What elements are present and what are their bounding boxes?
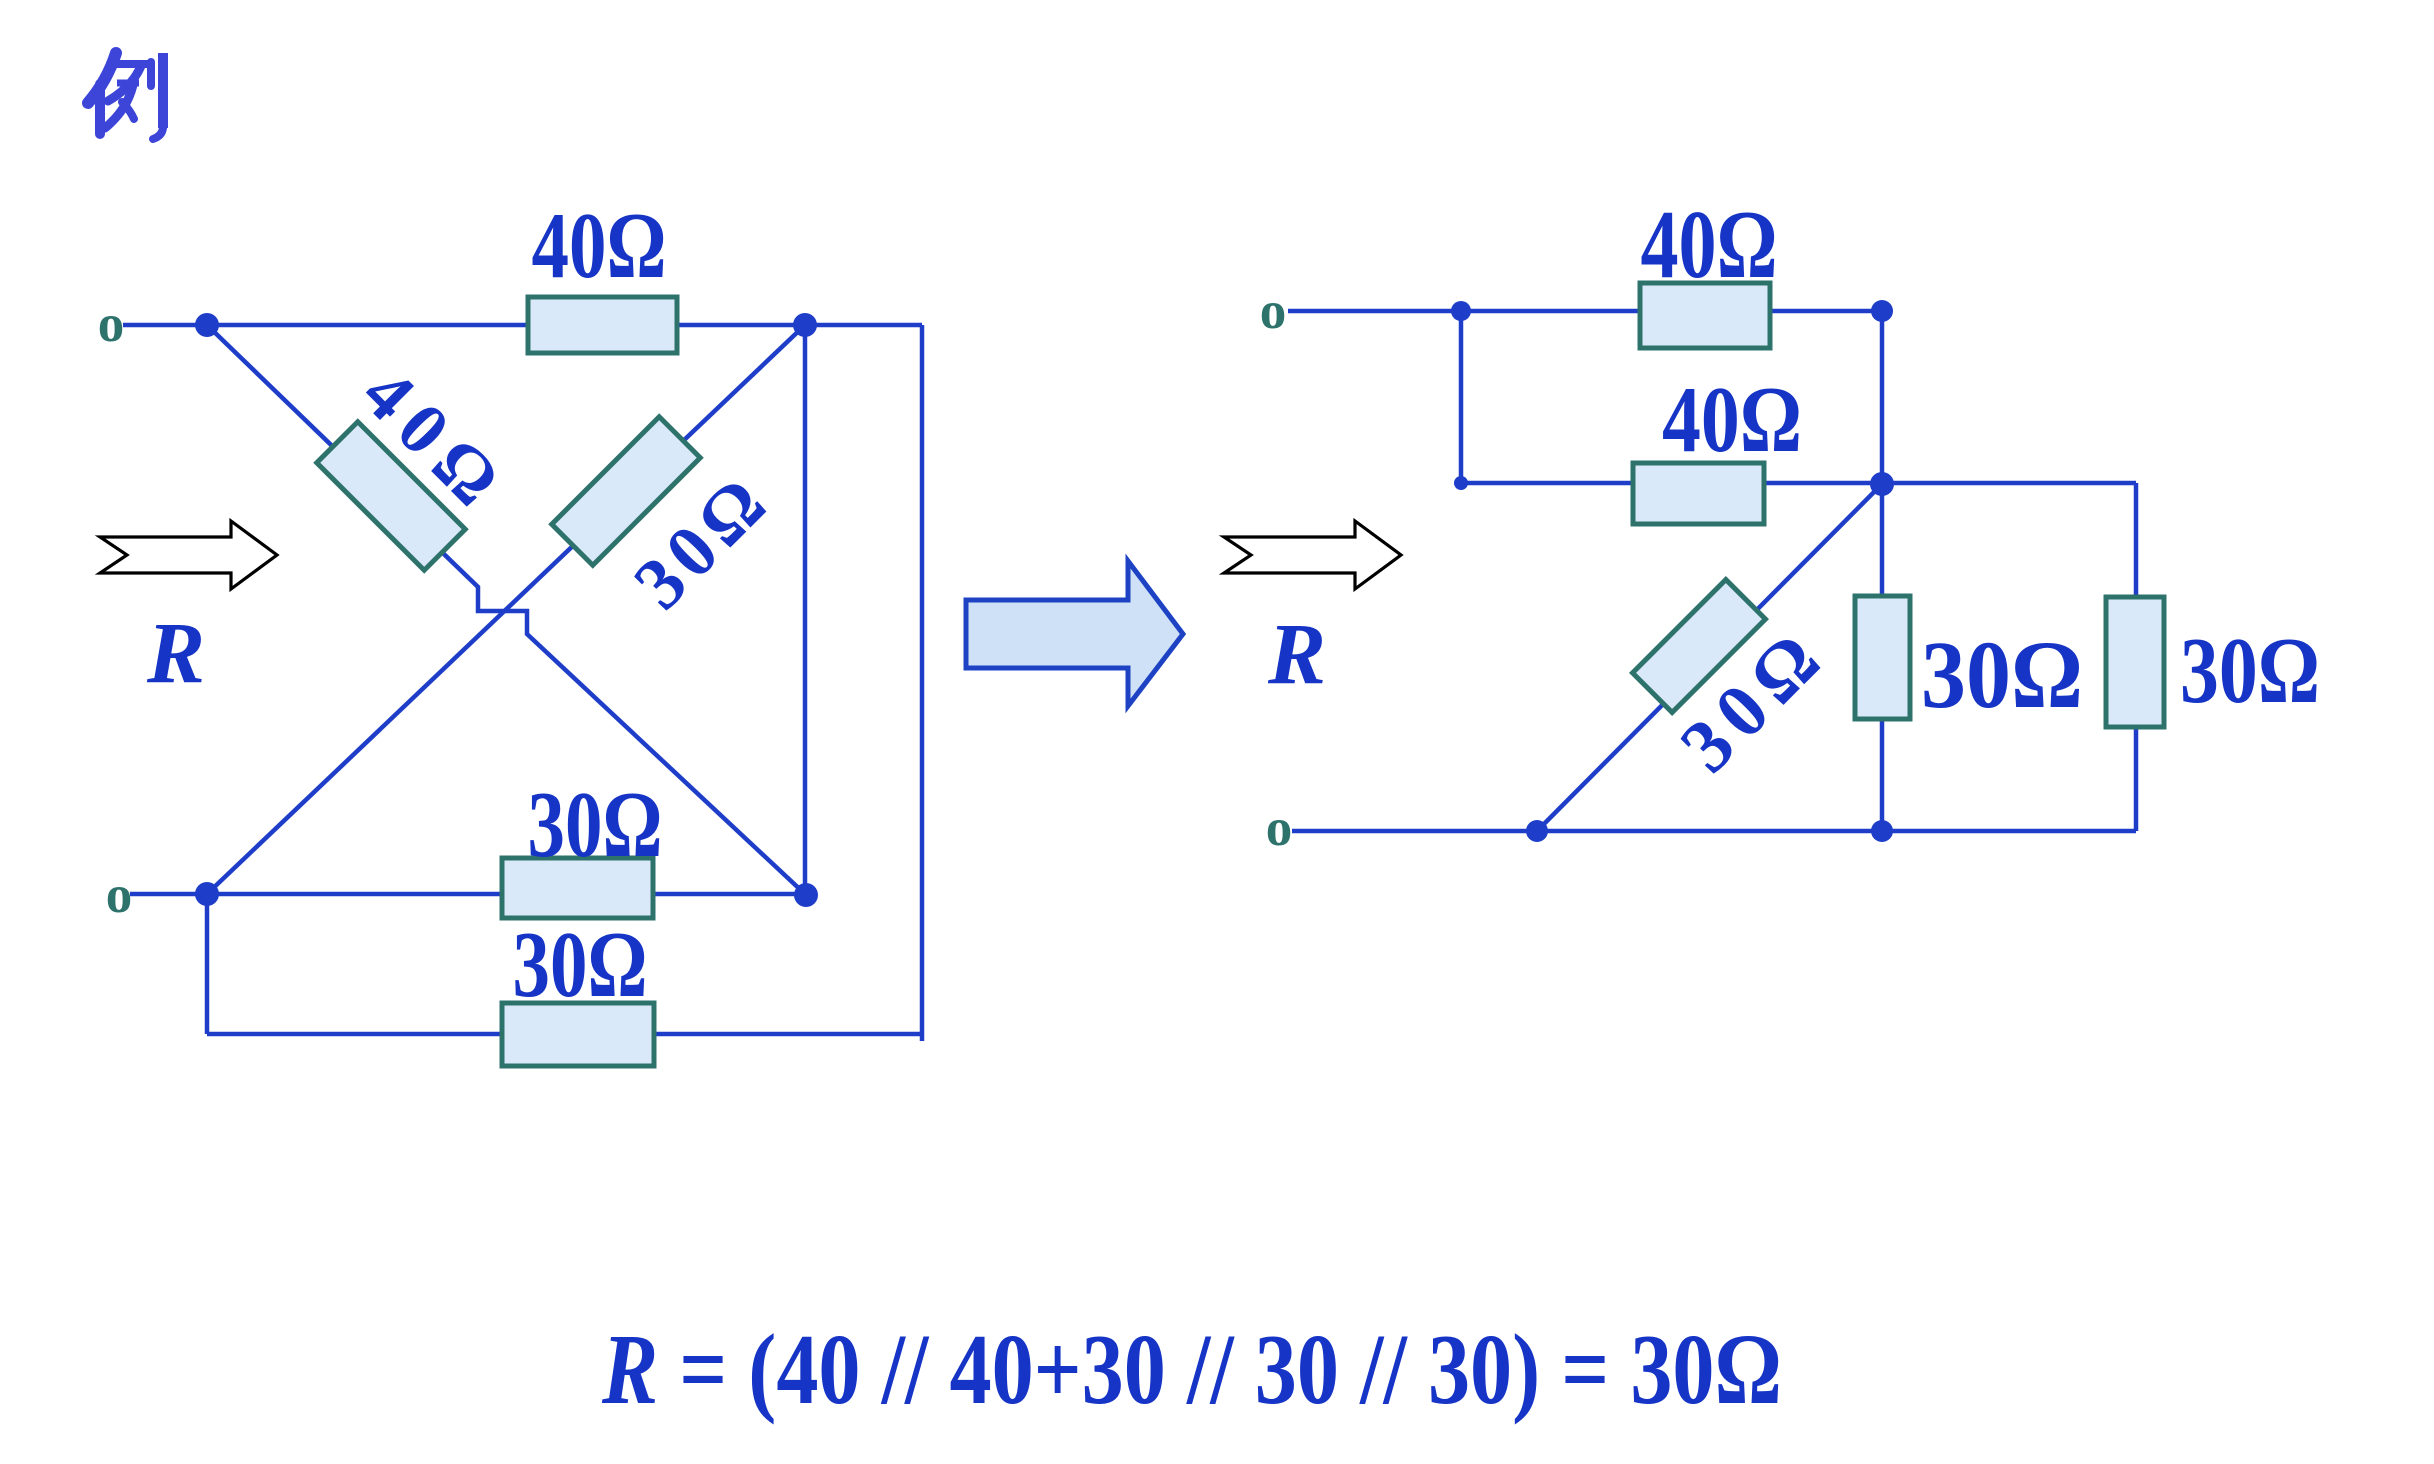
node D [794, 883, 818, 907]
svg-text:30Ω: 30Ω [513, 913, 648, 1017]
wire diagonal B to C [207, 325, 805, 894]
resistor R5R 30ohm vertical right [2106, 597, 2164, 727]
resistor R3 30ohm diagonal [552, 417, 700, 565]
node F [1871, 300, 1893, 322]
resistor R1 40ohm top [528, 297, 677, 353]
svg-text:40Ω: 40Ω [1641, 191, 1778, 298]
wire bottom-most [207, 1032, 922, 1037]
resistor R2R 40ohm [1633, 463, 1764, 524]
node E2 small [1454, 476, 1468, 490]
resistor R1R 40ohm [1640, 283, 1770, 348]
wire bottom row [1292, 829, 2136, 834]
node G [1870, 472, 1894, 496]
big transform arrow [966, 561, 1183, 706]
resistor R5 30ohm bottom [502, 1003, 654, 1066]
wire right outer vertical [2134, 483, 2139, 831]
wire diagonal G-H [1537, 484, 1882, 831]
wire F-G-I vertical [1880, 311, 1885, 831]
wire top row [1288, 309, 1882, 314]
node B [793, 313, 817, 337]
wire diagonal A to D with crossover jog [207, 325, 806, 895]
svg-text:o: o [98, 295, 125, 353]
svg-text:o: o [106, 866, 133, 924]
wire top: o to corner [123, 323, 922, 328]
wire second row [1461, 481, 2136, 486]
wire right outer vertical [920, 325, 925, 1041]
svg-text:R: R [1267, 605, 1326, 702]
node A [195, 313, 219, 337]
svg-text:R: R [146, 604, 205, 701]
wire inner vertical B-D [803, 325, 808, 895]
svg-text:40Ω: 40Ω [1662, 368, 1802, 472]
resistor R4R 30ohm vertical [1855, 596, 1910, 719]
wire C down [205, 894, 210, 1034]
wire E down [1459, 311, 1464, 483]
node H [1526, 820, 1548, 842]
svg-text:40Ω: 40Ω [532, 194, 667, 298]
node E [1451, 301, 1471, 321]
title 例 (drawn strokes) [88, 53, 163, 139]
node C [195, 882, 219, 906]
resistor R2 40ohm diagonal [317, 422, 465, 570]
wire bottom row C-D [130, 892, 806, 897]
resistor R3R 30ohm diagonal [1633, 580, 1766, 713]
svg-text:30Ω: 30Ω [1921, 621, 2083, 728]
node I [1871, 820, 1893, 842]
hollow arrow right [1224, 521, 1401, 589]
hollow arrow left [100, 521, 277, 589]
svg-text:30Ω: 30Ω [2180, 619, 2320, 723]
svg-text:R = (40 // 40+30 // 30 // 30): R = (40 // 40+30 // 30 // 30) = 30Ω [601, 1313, 1782, 1425]
resistor R4 30ohm [502, 858, 653, 918]
svg-text:30Ω: 30Ω [528, 773, 663, 877]
svg-text:o: o [1260, 282, 1287, 340]
svg-text:o: o [1266, 799, 1293, 857]
